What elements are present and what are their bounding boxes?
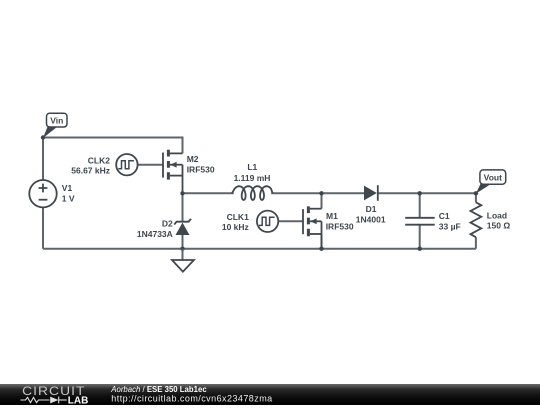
wire C1 top lead [419,193,421,218]
svg-text:IRF530: IRF530 [326,222,354,232]
svg-text:M1: M1 [326,211,338,221]
svg-text:D1: D1 [366,204,377,214]
inductor L1 [232,162,273,200]
junction dot C1 top [418,191,422,195]
wire Load bottom lead [475,237,477,249]
svg-text:10 kHz: 10 kHz [222,222,249,232]
junction dot D2 bottom [180,247,184,251]
logo glyph resistor-diode [21,397,67,404]
capacitor C1 [405,211,461,232]
zener diode D2 [137,219,191,239]
transistor M1 [303,206,354,248]
node Vout dot [474,191,478,195]
wire D2 bottom lead [182,235,184,249]
wire CLK1 to M1 gate [278,220,303,222]
wire D1 cathode to Vout node [378,192,476,194]
svg-text:1 V: 1 V [62,193,75,203]
wire CLK2 to M2 gate [138,164,163,166]
wire M1 source down [321,234,323,249]
svg-text:V1: V1 [62,183,73,193]
wire top Vin to M2 drain [43,138,183,154]
svg-text:1.119 mH: 1.119 mH [234,173,271,183]
svg-text:Vout: Vout [484,172,502,182]
wire V1 bottom to ground rail [42,207,44,248]
node B junction [319,191,323,195]
junction dot C1 bottom [418,247,422,251]
clock source CLK2 [71,154,137,176]
wire left V1 branch [42,138,44,181]
wire M1 drain up [321,193,323,208]
svg-text:33 µF: 33 µF [439,222,461,232]
wire node A to L1 [183,192,234,194]
svg-text:Aorbach / ESE 350 Lab1ec: Aorbach / ESE 350 Lab1ec [110,385,207,394]
junction dot M1 source [319,247,323,251]
node flag Vin [43,113,67,138]
clock source CLK1 [222,211,278,233]
svg-text:M2: M2 [187,154,199,164]
svg-text:C1: C1 [439,211,450,221]
transistor M2 [163,150,215,194]
node A junction [180,191,184,195]
svg-text:L1: L1 [247,162,257,172]
diode D1 [356,185,386,224]
ground [172,249,194,272]
svg-text:56.67 kHz: 56.67 kHz [71,166,110,176]
voltage source V1 [29,180,75,207]
node Vin dot [41,135,45,139]
svg-text:150 Ω: 150 Ω [487,221,511,231]
svg-text:Load: Load [487,210,507,220]
svg-text:D2: D2 [162,219,173,229]
svg-text:IRF530: IRF530 [187,164,215,174]
svg-text:1N4733A: 1N4733A [137,229,173,239]
svg-text:CLK1: CLK1 [227,212,249,222]
svg-text:1N4001: 1N4001 [356,214,386,224]
wire L1 right to D1 anode [271,192,364,194]
wire bottom rail [43,248,476,250]
footer bar [0,384,540,406]
resistor Load [471,202,511,237]
svg-text:CLK2: CLK2 [88,155,110,165]
wire Load top lead [475,193,477,202]
svg-text:LAB: LAB [68,395,89,405]
svg-text:http://circuitlab.com/cvn6x234: http://circuitlab.com/cvn6x23478zma [111,394,272,404]
wire C1 bottom lead [419,225,421,249]
node flag Vout [476,170,506,194]
svg-text:Vin: Vin [50,115,63,125]
wire node A down to D2 [182,193,184,221]
